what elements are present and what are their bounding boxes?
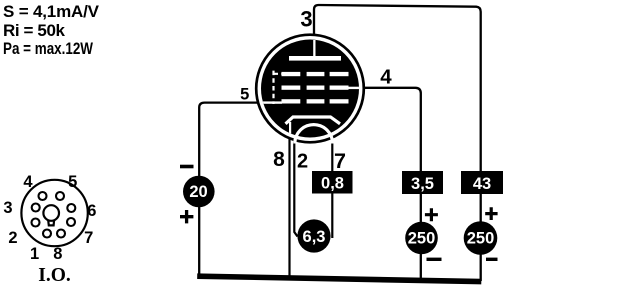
socket key spigot — [43, 205, 59, 225]
polarity plus (screen supply) — [425, 208, 438, 221]
svg-text:Pa = max.12W: Pa = max.12W — [3, 40, 93, 58]
grid g1 (control) dashes — [282, 99, 349, 103]
svg-text:5: 5 — [68, 173, 77, 191]
polarity minus (anode supply) — [486, 258, 498, 261]
wire pin7 heater lead — [331, 141, 333, 239]
svg-text:3: 3 — [3, 199, 12, 217]
grid g1 internal lead from pin 5 — [258, 101, 282, 103]
grid interconnect dashed lead — [274, 71, 282, 104]
anode (plate) bar — [289, 56, 341, 61]
svg-text:7: 7 — [334, 149, 346, 173]
cathode — [286, 117, 341, 124]
socket pin hole 1 — [43, 230, 51, 238]
svg-text:4: 4 — [23, 173, 33, 191]
grid g2 lead to pin 4 — [349, 87, 360, 89]
svg-text:43: 43 — [473, 175, 491, 193]
socket base outline (bottom view) — [21, 180, 87, 246]
polarity minus (grid bias) — [180, 165, 194, 169]
svg-text:0,8: 0,8 — [321, 175, 344, 193]
svg-text:6,3: 6,3 — [303, 228, 326, 246]
polarity plus (anode supply) — [485, 207, 497, 220]
svg-text:20: 20 — [189, 183, 207, 201]
socket pin hole 4 — [39, 192, 47, 200]
wire pin2 heater lead — [294, 142, 297, 237]
polarity minus (screen supply) — [427, 258, 442, 261]
svg-text:8: 8 — [53, 245, 62, 263]
meter M3 heater voltage 6,3 V — [297, 219, 330, 252]
svg-text:S = 4,1mA/V: S = 4,1mA/V — [3, 2, 100, 21]
meter M2 heater current 0,8 A — [312, 171, 353, 194]
svg-text:3,5: 3,5 — [411, 175, 434, 193]
svg-text:7: 7 — [84, 229, 93, 247]
anode internal lead — [313, 40, 315, 56]
cathode internal lead to pin 8 — [289, 122, 291, 136]
wire ground bus — [197, 276, 481, 281]
socket pin hole 5 — [56, 192, 64, 200]
meter M5 screen voltage 250 V — [405, 222, 438, 255]
meter M1 grid bias 20 V — [183, 176, 215, 208]
wire pin5 control-grid lead — [199, 103, 259, 276]
socket pin hole 8 — [57, 230, 65, 238]
socket pin hole 3 — [32, 204, 40, 212]
svg-text:I.O.: I.O. — [38, 265, 71, 286]
meter M7 anode voltage 250 V — [464, 221, 498, 255]
wire pin4 screen lead — [361, 88, 421, 280]
svg-text:6: 6 — [87, 202, 96, 220]
meter M6 anode current 43 mA — [461, 171, 503, 194]
svg-text:4: 4 — [380, 65, 392, 88]
grid g3 (suppressor) dashes — [282, 72, 349, 76]
svg-text:5: 5 — [240, 85, 249, 103]
svg-text:1: 1 — [30, 245, 39, 263]
svg-text:2: 2 — [297, 151, 308, 173]
svg-text:3: 3 — [300, 6, 312, 31]
grid g2 (screen) dashes — [282, 86, 349, 90]
svg-text:250: 250 — [408, 230, 436, 248]
socket pin hole 7 — [67, 218, 75, 226]
heater filament arc — [295, 125, 333, 144]
socket pin hole 6 — [67, 204, 75, 212]
svg-text:8: 8 — [273, 148, 285, 171]
tube V1 envelope — [256, 35, 364, 143]
svg-text:250: 250 — [467, 230, 495, 248]
wire pin3 anode lead to HT+ rail — [314, 5, 481, 281]
wire pin8 cathode lead — [288, 133, 290, 278]
socket pin hole 2 — [32, 219, 40, 227]
svg-text:2: 2 — [8, 229, 17, 247]
polarity plus (grid bias) — [180, 210, 193, 223]
meter M4 screen current 3,5 mA — [402, 171, 443, 194]
svg-text:Ri = 50k: Ri = 50k — [3, 21, 66, 40]
